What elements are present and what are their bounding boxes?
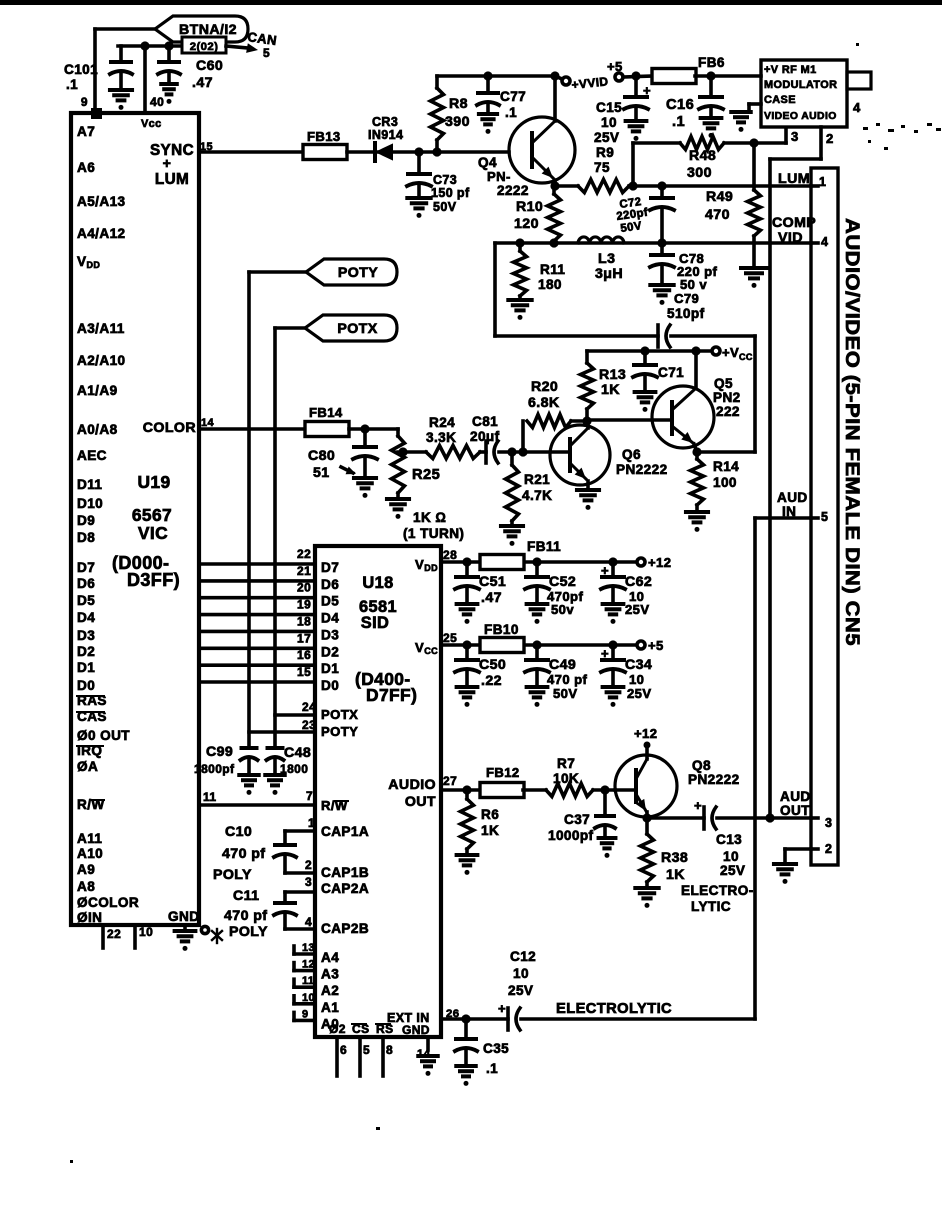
svg-text:R13: R13 (599, 367, 626, 383)
wire POTX vertical line (273, 328, 277, 748)
wire modulator pin 2 audio drop (819, 127, 823, 159)
svg-text:A4/A12: A4/A12 (77, 226, 126, 241)
wire COMP VID line (495, 241, 811, 245)
svg-text:A2: A2 (321, 983, 339, 998)
svg-text:AEC: AEC (77, 448, 107, 463)
CN5 inner pin stubs (811, 184, 818, 188)
resistor R10 120 (548, 194, 561, 241)
svg-text:10: 10 (601, 115, 617, 130)
svg-text:L3: L3 (598, 251, 615, 267)
wire to CN4 pin 5 arrow (226, 46, 248, 48)
svg-text:D3: D3 (77, 628, 95, 643)
potentiometer R25 1K (392, 436, 405, 493)
svg-text:1800pf: 1800pf (194, 762, 235, 776)
svg-text:75: 75 (594, 160, 610, 175)
svg-text:C37: C37 (564, 812, 590, 827)
wire C79 feedback loop (493, 243, 497, 336)
svg-text:IN914: IN914 (368, 128, 403, 142)
svg-text:CAP1A: CAP1A (321, 824, 369, 839)
svg-text:D3: D3 (321, 627, 339, 642)
ground below C16 (701, 116, 722, 120)
svg-text:1: 1 (819, 175, 826, 189)
junction at R21 top (507, 447, 516, 456)
wire +VVID rail (Q4 collector) (437, 74, 555, 78)
capacitor C99 1800pf (242, 746, 257, 750)
wire Q4 emitter to R9 (555, 184, 578, 188)
svg-text:D5: D5 (321, 594, 339, 609)
svg-text:D0: D0 (321, 678, 339, 693)
svg-text:+V RF M1: +V RF M1 (764, 64, 817, 76)
svg-text:U19: U19 (137, 472, 170, 492)
wire Q5 emitter to C79 drop (697, 450, 755, 454)
svg-text:A0/A8: A0/A8 (77, 422, 118, 437)
wire RTNA flag to U19 pin 9 (95, 27, 155, 31)
svg-text:A5/A13: A5/A13 (77, 194, 126, 209)
svg-text:R10: R10 (516, 199, 543, 215)
svg-text:1K: 1K (481, 823, 499, 838)
svg-text:Q8: Q8 (692, 758, 711, 773)
svg-text:C80: C80 (308, 448, 335, 464)
svg-text:VIC: VIC (138, 523, 168, 543)
svg-text:AUD: AUD (777, 490, 808, 505)
svg-text:POTY: POTY (321, 724, 358, 739)
svg-text:D8: D8 (77, 530, 95, 545)
svg-text:FB14: FB14 (309, 405, 343, 420)
svg-text:50v: 50v (551, 602, 574, 617)
wire data bus D7-D0 (199, 564, 315, 682)
svg-text:15: 15 (297, 665, 311, 679)
svg-text:C52: C52 (549, 574, 576, 590)
ground below C99 (239, 773, 259, 777)
svg-text:R24: R24 (429, 415, 455, 430)
wire FB12 to CR3 (347, 150, 377, 154)
svg-text:LYTIC: LYTIC (691, 899, 731, 914)
svg-text:FB11: FB11 (527, 539, 561, 554)
svg-text:A4: A4 (321, 950, 339, 965)
svg-text:5: 5 (363, 1043, 370, 1057)
junction at C49 (532, 640, 541, 649)
svg-text:.22: .22 (481, 673, 502, 689)
svg-text:AUDIO: AUDIO (388, 777, 436, 793)
wire C101/C60 rail (118, 44, 182, 48)
junction at R8 bottom (432, 147, 441, 156)
svg-text:11: 11 (302, 975, 314, 987)
svg-text:2: 2 (825, 842, 832, 856)
svg-text:R6: R6 (481, 807, 499, 822)
capacitor C80 51 (363, 429, 367, 447)
svg-text:VIDEO AUDIO: VIDEO AUDIO (764, 111, 837, 122)
wire R7 to Q8 base (593, 788, 615, 792)
wire SYNC+LUM from U19 pin 15 (199, 150, 303, 154)
junction at R6 (462, 785, 471, 794)
svg-text:50V: 50V (553, 686, 578, 701)
junction at C60 (164, 41, 173, 50)
capacitor C72 LUM to video (660, 186, 664, 198)
ground below C35 (456, 1064, 476, 1068)
svg-text:C49: C49 (549, 657, 576, 673)
bus pin numbers 22-15 (297, 547, 311, 679)
svg-text:PN2: PN2 (713, 390, 741, 405)
ferrite bead FB10 (480, 638, 524, 653)
svg-text:OUT: OUT (405, 794, 436, 810)
top border bar (0, 0, 942, 5)
svg-text:POLY: POLY (229, 924, 268, 940)
junction at C34 (608, 640, 617, 649)
svg-text:10: 10 (513, 966, 529, 981)
resistor R13 1K (585, 409, 589, 421)
svg-text:390: 390 (445, 114, 470, 130)
wire video node to modulator pin 3 (754, 141, 786, 145)
junction at C80 (360, 424, 369, 433)
svg-text:D6: D6 (77, 576, 95, 591)
svg-text:R8: R8 (449, 96, 468, 112)
junction at C78 (657, 238, 666, 247)
ferrite bead FB6 (652, 69, 696, 84)
svg-text:D1: D1 (321, 661, 339, 676)
capacitor C78 220pf (660, 243, 664, 255)
capacitor C52 470pf (535, 562, 539, 577)
junction at Q6 collector node (582, 416, 591, 425)
U19 overbars RAS CAS IRQ RW (77, 695, 104, 697)
svg-text:4: 4 (853, 100, 861, 115)
svg-text:A3: A3 (321, 967, 339, 982)
wire R48 branch riser (631, 143, 635, 186)
svg-text:SYNC: SYNC (150, 142, 194, 159)
svg-text:D7: D7 (321, 560, 339, 575)
junction at R20 left (518, 447, 527, 456)
wire EXT IN from U18 pin 26 (441, 1017, 508, 1021)
svg-text:C60: C60 (196, 58, 223, 74)
junction Q8 emitter node (642, 813, 651, 822)
svg-text:ØA: ØA (77, 759, 98, 774)
resistor R24 3.3K (426, 446, 480, 459)
svg-text:.1: .1 (672, 114, 685, 130)
svg-text:FB6: FB6 (698, 55, 725, 70)
svg-text:OUT: OUT (780, 803, 810, 818)
inductor L3 3uH (578, 237, 624, 243)
svg-text:R48: R48 (689, 148, 716, 164)
svg-text:17: 17 (297, 631, 311, 645)
svg-text:20μf: 20μf (470, 429, 500, 444)
svg-text:PN-: PN- (487, 169, 511, 184)
ground below C50 (457, 685, 478, 689)
svg-text:3.3K: 3.3K (426, 430, 456, 445)
ground below C71 (635, 390, 656, 394)
wire AUDIO OUT pin 27 (441, 788, 481, 792)
svg-text:470: 470 (705, 207, 730, 223)
svg-text:25V: 25V (508, 983, 533, 998)
svg-text:(1 TURN): (1 TURN) (403, 526, 464, 541)
svg-text:50V: 50V (433, 200, 457, 214)
svg-text:120: 120 (514, 216, 539, 232)
svg-text:C62: C62 (625, 574, 652, 590)
ground below C101 (110, 88, 132, 92)
svg-text:9: 9 (81, 95, 88, 109)
svg-text:D10: D10 (77, 496, 103, 511)
svg-text:22: 22 (297, 547, 311, 561)
svg-text:GND: GND (402, 1023, 430, 1037)
footnote star (212, 929, 222, 943)
svg-text:PN2222: PN2222 (688, 772, 740, 787)
svg-text:18: 18 (297, 614, 311, 628)
svg-text:FB13: FB13 (307, 129, 341, 144)
svg-text:D2: D2 (321, 644, 339, 659)
svg-text:R38: R38 (661, 850, 688, 866)
wire AUD IN riser to CN5 pin 5 (753, 518, 757, 1019)
svg-text:C48: C48 (284, 745, 311, 761)
svg-text:IN: IN (782, 504, 796, 519)
svg-text:10: 10 (723, 849, 739, 864)
junction at C50 (462, 640, 471, 649)
capacitor C60 (167, 46, 171, 62)
ground below C34 (603, 685, 624, 689)
junction at C51 (462, 557, 471, 566)
svg-text:19: 19 (297, 598, 311, 612)
wire C81 to Q6 base (512, 450, 570, 454)
svg-text:C99: C99 (206, 744, 233, 760)
wire C13 to CN5 pin 3 (717, 816, 811, 820)
wire POTY flag lead (249, 270, 306, 274)
junction at C35 (461, 1014, 470, 1023)
svg-text:+12: +12 (634, 726, 657, 741)
svg-text:ELECTRO-: ELECTRO- (681, 883, 754, 898)
svg-text:12: 12 (302, 959, 315, 971)
terminal +12 Q8 collector (644, 742, 651, 749)
svg-text:6567: 6567 (132, 505, 172, 525)
transistor Q4 PN2222 (509, 117, 575, 183)
svg-text:A3/A11: A3/A11 (77, 321, 125, 336)
wire CR3 to Q4 base (392, 150, 509, 154)
junction video node at R49 (749, 138, 758, 147)
wire POTX to U18 pin 24 (275, 713, 315, 717)
resistor R14 100 (695, 452, 699, 459)
flag BTNA/I2 (CN4) (155, 16, 248, 42)
junction at C62 (608, 557, 617, 566)
svg-text:+: + (163, 156, 172, 172)
svg-text:C13: C13 (716, 832, 742, 847)
svg-text:.1: .1 (486, 1061, 498, 1076)
terminal +Vcc (712, 347, 720, 355)
resistor R6 1K (465, 790, 469, 799)
svg-text:4: 4 (821, 235, 828, 249)
ground below C80 (354, 476, 376, 480)
svg-text:C16: C16 (666, 97, 694, 113)
wire FB6 to modulator (695, 74, 761, 78)
svg-text:GND: GND (168, 909, 199, 924)
svg-text:ØCOLOR: ØCOLOR (77, 895, 139, 910)
junction at R11 (515, 238, 524, 247)
ground below C60 (161, 82, 177, 86)
resistor R38 1K (645, 818, 649, 834)
capacitor C37 1000pf (603, 790, 607, 816)
svg-text:R14: R14 (713, 459, 739, 474)
svg-text:.47: .47 (481, 590, 502, 606)
svg-text:D4: D4 (321, 611, 339, 626)
svg-text:C12: C12 (510, 949, 536, 964)
capacitor C71 (643, 351, 647, 365)
svg-text:3: 3 (825, 816, 832, 830)
svg-text:C35: C35 (483, 1041, 509, 1056)
capacitor C35 .1 (464, 1019, 468, 1039)
svg-text:1K Ω: 1K Ω (413, 510, 446, 525)
wire POTY vertical line (247, 272, 251, 748)
resistor R48 300 (633, 141, 680, 145)
ground below R21 (501, 524, 523, 528)
ground below R49 (741, 266, 767, 270)
RF modulator M1 box (761, 60, 847, 127)
svg-text:21: 21 (297, 564, 311, 578)
wire C79 to Q5 emitter node (671, 334, 755, 338)
svg-text:1000pf: 1000pf (548, 828, 594, 843)
U19 bottom pin stubs 22 and 10 (101, 925, 105, 948)
ground below R14 (686, 510, 708, 514)
wire FB14 to junction (349, 427, 365, 431)
resistor R9 75 (578, 180, 629, 193)
svg-text:1800: 1800 (280, 762, 308, 776)
ground below C78 (650, 283, 673, 287)
svg-text:R9: R9 (596, 145, 614, 160)
junction Q4 emitter node (550, 181, 559, 190)
transistor Q8 PN2222 (615, 755, 677, 817)
svg-text:150 pf: 150 pf (431, 186, 470, 200)
svg-text:R20: R20 (531, 379, 558, 395)
svg-text:D3FF): D3FF) (127, 570, 180, 590)
capacitor C81 series 20uf (480, 450, 486, 454)
U18 left data pin labels (321, 560, 339, 693)
svg-text:+V: +V (722, 345, 739, 360)
svg-text:ØIN: ØIN (77, 910, 102, 925)
svg-text:20: 20 (297, 581, 311, 595)
transistor Q6 PN2222 (550, 425, 610, 485)
ground below U18 pin 14 (418, 1054, 438, 1058)
svg-text:470 pf: 470 pf (222, 846, 265, 862)
resistor R20 6.8K feedback (521, 421, 525, 452)
trimmer wiper arrow R25 (341, 467, 353, 473)
svg-text:R7: R7 (557, 756, 575, 771)
ground below R6 (457, 853, 478, 857)
svg-text:MODULATOR: MODULATOR (764, 79, 837, 91)
capacitor C73 (417, 152, 421, 174)
junction at Q5 collector (691, 346, 700, 355)
wire COLOR from U19 pin 14 (199, 427, 305, 431)
wire LUM line R9 to CN5 pin 1 (629, 184, 811, 188)
ground below C51 (457, 602, 478, 606)
svg-text:R21: R21 (524, 472, 550, 487)
svg-text:25: 25 (443, 631, 457, 645)
svg-text:CASE: CASE (764, 94, 796, 106)
svg-text:D7FF): D7FF) (366, 685, 417, 705)
svg-text:C71: C71 (658, 365, 684, 380)
ferrite bead FB13 (303, 145, 347, 160)
ground below Q6 emitter (577, 488, 599, 492)
capacitor C101 (119, 46, 123, 62)
ferrite bead FB12 (480, 783, 524, 798)
wire R25 wiper to R24 (398, 450, 426, 454)
U19 ground pin symbol (183, 925, 187, 931)
capacitor C79 series (656, 325, 660, 347)
svg-text:300: 300 (687, 165, 712, 181)
svg-text:AUD: AUD (780, 789, 811, 804)
ground below C62 (603, 602, 624, 606)
junction at C15 (631, 71, 640, 80)
junction at R10 bottom (549, 238, 558, 247)
svg-text:5: 5 (821, 510, 828, 524)
flag POTX (305, 315, 397, 341)
connector CN5 box (811, 168, 838, 865)
svg-text:A1/A9: A1/A9 (77, 383, 118, 398)
svg-text:2: 2 (826, 131, 834, 146)
ground below R11 (508, 298, 531, 302)
wire C12 to AUD IN riser (521, 1017, 755, 1021)
svg-text:13: 13 (302, 942, 315, 954)
transistor Q5 PN2222 (652, 386, 714, 448)
svg-text:CAP2B: CAP2B (321, 921, 369, 936)
svg-text:Q5: Q5 (714, 376, 733, 391)
U19 ground open terminal (201, 926, 208, 933)
U19 pin 9 pad (91, 108, 102, 119)
svg-text:D5: D5 (77, 593, 95, 608)
modulator case ground (749, 102, 761, 106)
svg-text:222: 222 (716, 404, 740, 419)
svg-text:51: 51 (313, 465, 330, 481)
svg-text:FB12: FB12 (486, 765, 520, 780)
ground below R25 (387, 497, 409, 501)
svg-text:A2/A10: A2/A10 (77, 353, 126, 368)
svg-text:1K: 1K (666, 867, 685, 883)
svg-text:6: 6 (340, 1043, 347, 1057)
svg-text:C10: C10 (225, 824, 252, 840)
ferrite bead FB14 (305, 422, 349, 437)
junction C72 top on LUM (657, 181, 666, 190)
svg-text:+12: +12 (648, 555, 671, 570)
capacitor C11 470pf poly (285, 890, 315, 894)
svg-text:D6: D6 (321, 577, 339, 592)
svg-text:.1: .1 (505, 105, 517, 120)
svg-text:+: + (694, 798, 702, 813)
svg-text:180: 180 (538, 277, 562, 292)
junction at C77 (483, 71, 492, 80)
svg-text:22: 22 (107, 927, 121, 941)
junction Q5 emitter node (692, 447, 701, 456)
svg-text:C77: C77 (500, 89, 526, 104)
wire Q8 emitter to C13 (647, 816, 704, 820)
svg-text:470 pf: 470 pf (224, 908, 267, 924)
svg-text:LUM: LUM (155, 171, 189, 188)
U18 GND pin 14 (426, 1037, 430, 1050)
svg-text:POLY: POLY (213, 867, 252, 883)
svg-text:CC: CC (739, 352, 753, 362)
junction at C16 (706, 71, 715, 80)
svg-text:R25: R25 (412, 467, 440, 483)
svg-text:Ø2: Ø2 (329, 1022, 346, 1036)
svg-text:D4: D4 (77, 610, 95, 625)
capacitor C16 .1 (709, 76, 713, 97)
ground below R38 (635, 886, 658, 890)
ground below C73 (407, 196, 430, 200)
svg-text:D11: D11 (77, 477, 102, 492)
svg-text:5: 5 (263, 46, 270, 60)
capacitor C51 .47 (465, 562, 469, 577)
svg-text:CAP2A: CAP2A (321, 881, 369, 896)
junction at Q4 collector (550, 71, 559, 80)
svg-text:1K: 1K (601, 382, 620, 398)
junction at C71 (640, 346, 649, 355)
svg-text:PN2222: PN2222 (616, 462, 668, 477)
svg-text:C51: C51 (479, 574, 506, 590)
svg-text:2(02): 2(02) (190, 41, 219, 53)
svg-text:27: 27 (443, 774, 457, 788)
svg-text:A6: A6 (77, 160, 95, 175)
